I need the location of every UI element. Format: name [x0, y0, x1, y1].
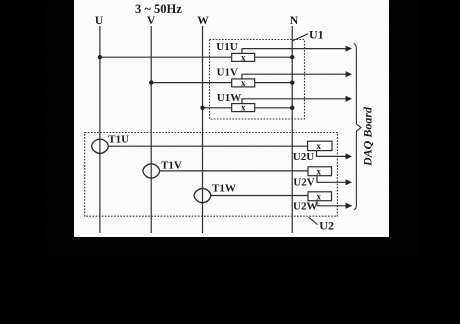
svg-text:T1W: T1W — [212, 183, 236, 195]
svg-text:U2: U2 — [319, 219, 334, 233]
svg-text:x: x — [241, 103, 246, 113]
svg-text:x: x — [241, 52, 246, 62]
svg-text:U2U: U2U — [293, 151, 314, 163]
svg-text:U2V: U2V — [293, 176, 314, 188]
svg-text:U: U — [95, 15, 104, 27]
svg-text:U2W: U2W — [293, 201, 317, 213]
svg-text:U1W: U1W — [217, 92, 241, 104]
svg-text:U1U: U1U — [216, 41, 237, 53]
svg-text:x: x — [317, 166, 322, 176]
svg-text:DAQ Board: DAQ Board — [361, 106, 375, 167]
svg-text:U1: U1 — [309, 27, 324, 41]
svg-text:x: x — [241, 78, 246, 88]
svg-text:V: V — [147, 15, 156, 27]
svg-text:W: W — [197, 15, 209, 27]
svg-text:U1V: U1V — [217, 66, 238, 78]
svg-text:T1U: T1U — [108, 134, 129, 146]
svg-text:N: N — [290, 15, 299, 27]
svg-text:x: x — [317, 141, 322, 151]
svg-text:T1V: T1V — [161, 159, 182, 171]
svg-text:3 ~ 50Hz: 3 ~ 50Hz — [135, 2, 182, 16]
